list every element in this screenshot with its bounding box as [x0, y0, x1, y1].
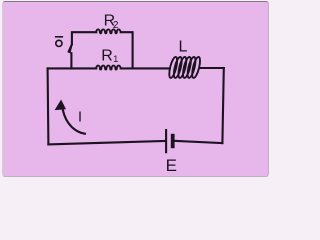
- switch blade (open knife switch): [67, 43, 73, 53]
- inductor L: [168, 56, 202, 78]
- wire coil to right corner: [200, 67, 224, 69]
- svg-text:1: 1: [113, 54, 118, 64]
- switch label (circle with overbar): [56, 37, 63, 47]
- svg-text:2: 2: [113, 20, 119, 31]
- wire: switch branch upper segment and R2 branch top-left corner: [72, 32, 96, 44]
- resistor R1: [96, 66, 120, 70]
- current arrow head: [55, 100, 66, 111]
- svg-text:L: L: [179, 39, 188, 56]
- battery E long thin plate: [165, 130, 167, 152]
- svg-text:R: R: [101, 47, 113, 64]
- battery E short thick plate: [171, 136, 175, 147]
- svg-text:E: E: [166, 156, 177, 175]
- wire between R1 and coil: [121, 67, 170, 69]
- wire top-left horizontal segment: [48, 67, 97, 69]
- wire bottom left: [48, 141, 165, 145]
- component labels: [78, 13, 188, 176]
- wire R2 to right corner, down to main line: [121, 32, 132, 68]
- wire right vertical: [222, 68, 223, 143]
- current arrow arc: [63, 110, 85, 134]
- resistor R2: [96, 29, 120, 33]
- lavender panel background: [2, 1, 269, 178]
- svg-text:I: I: [78, 110, 82, 126]
- wire: switch branch lower segment: [70, 53, 72, 68]
- wire bottom right: [175, 141, 223, 143]
- wire left vertical: [47, 68, 50, 144]
